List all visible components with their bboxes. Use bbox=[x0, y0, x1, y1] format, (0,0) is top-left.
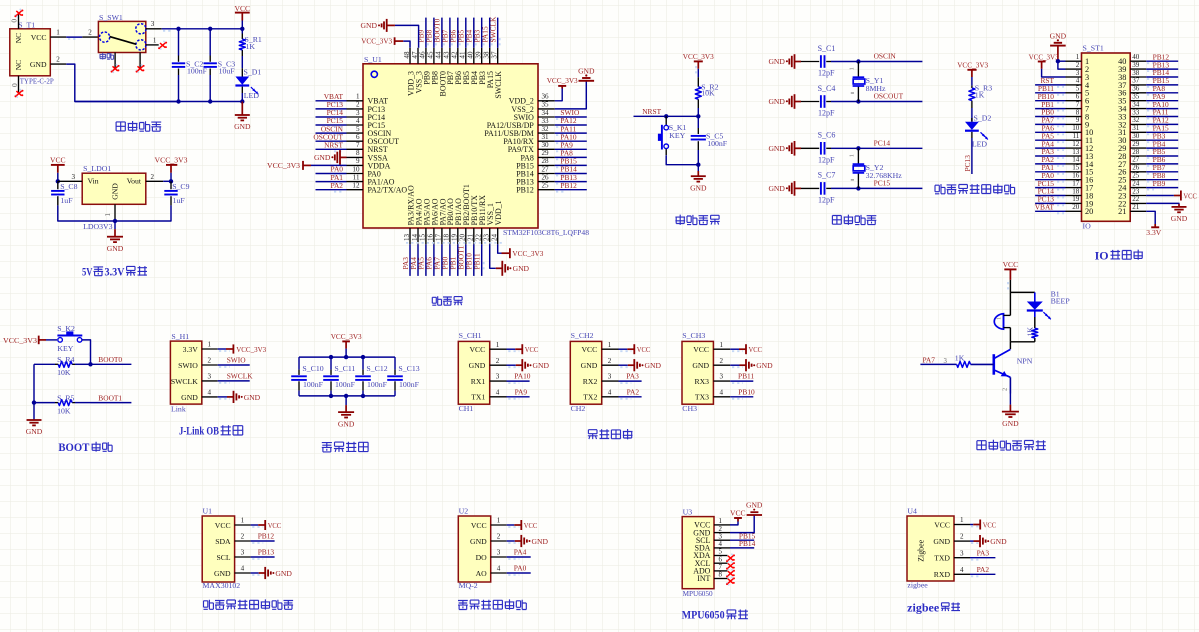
wire net RST at ST1 pin 4 bbox=[1035, 84, 1065, 86]
U4 pin 4 (RXD) pin line bbox=[954, 573, 970, 575]
wire net PA7 (alarm) bbox=[920, 363, 956, 365]
wire CH3 pin2 to GND bbox=[730, 364, 739, 366]
U3 pin 8 (INT) pin line bbox=[714, 578, 728, 580]
svg-text:36: 36 bbox=[542, 93, 550, 101]
svg-text:VCC_3V3: VCC_3V3 bbox=[547, 76, 578, 85]
wire to GND (reset) bbox=[697, 165, 699, 171]
svg-text:27: 27 bbox=[542, 165, 550, 173]
svg-text:12pF: 12pF bbox=[818, 196, 835, 205]
svg-text:4: 4 bbox=[496, 388, 500, 396]
svg-text:CH2: CH2 bbox=[571, 404, 586, 413]
svg-text:TXD: TXD bbox=[934, 554, 950, 563]
svg-text:20: 20 bbox=[1085, 207, 1093, 216]
resistor R4 bbox=[58, 361, 72, 367]
wire net PA9 (CH1) bbox=[507, 396, 530, 398]
ground GND (U2) bbox=[515, 540, 522, 542]
svg-text:23: 23 bbox=[1132, 187, 1140, 195]
ground GND (filter) bbox=[345, 405, 347, 412]
wire U2 pin1 to VCC bbox=[507, 524, 515, 526]
wire node to LED branch bbox=[1010, 291, 1034, 293]
title cheng-xu-yun-xing-zhi-shi-deng (run indicator) bbox=[935, 184, 945, 194]
switch SW1 pin 2 line bbox=[82, 36, 98, 38]
power port VCC_3V3 at U1 pin 36 bbox=[558, 85, 566, 87]
svg-text:1: 1 bbox=[207, 341, 211, 349]
U3 pin 3 (SCL) pin line bbox=[714, 539, 730, 541]
title chuan-kou-dian-lu (serial circuit) bbox=[588, 430, 598, 439]
svg-text:6: 6 bbox=[1076, 93, 1080, 101]
wire net BOOT0 at U1 pin 44 bbox=[441, 18, 443, 48]
svg-text:VCC: VCC bbox=[524, 521, 538, 530]
svg-text:6: 6 bbox=[356, 133, 360, 141]
wire net PA3 at U1 pin 13 bbox=[409, 244, 411, 276]
U1 pin 28 (PB15) pin line bbox=[538, 164, 555, 166]
svg-text:zigbee: zigbee bbox=[907, 581, 928, 590]
svg-text:1: 1 bbox=[719, 341, 723, 349]
crystal Y1 leads bbox=[857, 62, 859, 77]
svg-text:1: 1 bbox=[960, 516, 964, 524]
capacitor C9 bbox=[164, 190, 177, 192]
svg-text:VCC_3V3: VCC_3V3 bbox=[361, 37, 392, 46]
SW1 pin 1 line bbox=[146, 44, 159, 46]
ST1 pin 26 pin line bbox=[1130, 171, 1146, 173]
svg-text:VCC_3V3: VCC_3V3 bbox=[236, 345, 266, 354]
junction filter top stem bbox=[344, 355, 348, 359]
capacitor S_C11 bbox=[323, 375, 339, 377]
svg-text:VCC: VCC bbox=[525, 345, 539, 354]
no-connect X at SW1 pin 1 bbox=[158, 47, 161, 50]
svg-text:7: 7 bbox=[356, 141, 360, 149]
svg-text:5: 5 bbox=[719, 549, 723, 556]
wire VCC_3V3 to R3 bbox=[971, 77, 973, 86]
svg-text:8: 8 bbox=[1076, 108, 1080, 116]
wire net PA6 at ST1 pin 10 bbox=[1035, 131, 1065, 133]
svg-text:NC: NC bbox=[14, 33, 23, 44]
svg-text:100nF: 100nF bbox=[187, 67, 208, 76]
wire net PC13 at ST1 pin 19 bbox=[1035, 202, 1065, 204]
svg-text:VCC_3V3: VCC_3V3 bbox=[267, 161, 300, 170]
svg-text:BEEP: BEEP bbox=[1051, 296, 1071, 305]
svg-text:TX2: TX2 bbox=[583, 393, 597, 402]
svg-text:U4: U4 bbox=[907, 507, 917, 516]
U1 pin 40 (PB4) pin line bbox=[473, 48, 475, 64]
module U2 body bbox=[458, 516, 490, 582]
svg-text:7: 7 bbox=[1076, 100, 1080, 108]
capacitor C13 leads (filter S_C13) bbox=[394, 357, 396, 370]
U1 pin 42 (PB6) pin line bbox=[457, 48, 459, 64]
svg-text:PA2/TX/AO: PA2/TX/AO bbox=[368, 186, 408, 195]
resistor R4 leads bbox=[34, 363, 55, 365]
CH2 pin 2 (GND) pin line bbox=[602, 364, 619, 366]
junction at C3 bottom bbox=[208, 99, 212, 103]
U1 pin 21 (PB10/TX) pin line bbox=[473, 228, 475, 244]
svg-text:41: 41 bbox=[459, 51, 467, 59]
U1 pin 18 (PB0/AO) pin line bbox=[449, 228, 451, 244]
header ST1 body (IO expansion) bbox=[1082, 53, 1131, 221]
svg-text:GND: GND bbox=[275, 569, 292, 578]
power port 3.3V at ST1 pin 21 bbox=[1154, 224, 1156, 227]
wire net PA2 (CH2) bbox=[619, 396, 642, 398]
svg-text:15: 15 bbox=[1072, 164, 1080, 172]
key K1 contact circles bbox=[664, 125, 669, 130]
power port VCC (U3) bbox=[737, 518, 739, 522]
U1 pin 46 (PB9) pin line bbox=[425, 48, 427, 64]
svg-text:VCC_3V3: VCC_3V3 bbox=[957, 61, 988, 70]
power port VCC_3V3 at U1 pin 9 (VDDA) bbox=[311, 164, 347, 166]
wire U1 pin 47 to GND bbox=[395, 25, 419, 47]
svg-text:S_R5: S_R5 bbox=[57, 393, 74, 402]
svg-text:21: 21 bbox=[467, 233, 475, 241]
title xin-lv-xue-yang-jian-ce-mo-kuai (heart-rate module) bbox=[204, 600, 214, 610]
svg-text:100nF: 100nF bbox=[399, 380, 420, 389]
svg-text:PB12: PB12 bbox=[516, 186, 534, 195]
title jing-zhen-dian-lu (crystal circuit) bbox=[832, 216, 841, 225]
U1 pin 39 (PB3) pin line bbox=[481, 48, 483, 64]
svg-text:GND: GND bbox=[181, 393, 198, 402]
wire net PB12 at ST1 pin 40 bbox=[1146, 60, 1178, 62]
wire net PB14 (U3) bbox=[730, 547, 754, 549]
svg-text:10K: 10K bbox=[701, 89, 715, 98]
ST1 pin 22 pin line bbox=[1130, 202, 1146, 204]
bottom rail (filter) bbox=[299, 395, 395, 397]
svg-text:S_CH3: S_CH3 bbox=[682, 331, 705, 340]
svg-text:GND: GND bbox=[1171, 214, 1188, 223]
svg-text:GND: GND bbox=[469, 361, 486, 370]
connector T1 TYPE-C-2P body bbox=[10, 29, 51, 76]
LED B1 (BEEP) bbox=[1027, 302, 1043, 310]
ST1 pin 16 pin line bbox=[1066, 179, 1082, 181]
wire VCC_3V3 to R2 bbox=[697, 69, 699, 77]
svg-text:2: 2 bbox=[356, 101, 360, 109]
svg-text:MAX30102: MAX30102 bbox=[203, 581, 241, 590]
svg-text:INT: INT bbox=[697, 574, 710, 583]
crystal Y2 leads bbox=[857, 148, 859, 164]
power port VCC (CH1) bbox=[515, 348, 522, 350]
svg-text:100nF: 100nF bbox=[303, 380, 324, 389]
svg-text:PB14: PB14 bbox=[739, 539, 756, 548]
wire CH3 pin1 to VCC bbox=[730, 348, 739, 350]
wire left rail to GND (BOOT) bbox=[33, 364, 35, 419]
svg-text:40: 40 bbox=[467, 51, 475, 59]
U3 pin 2 (GND) pin line bbox=[714, 532, 730, 534]
power port VCC_3V3 at U1 pin 48 bbox=[403, 41, 410, 48]
U3 pin 4 (SDA) pin line bbox=[714, 547, 730, 549]
svg-text:22: 22 bbox=[475, 233, 483, 241]
wire net PA2 at ST1 pin 14 bbox=[1035, 163, 1065, 165]
title fu-wei-dian-lu (reset circuit) bbox=[675, 215, 685, 225]
ST1 pin 37 pin line bbox=[1130, 84, 1146, 86]
svg-text:GND: GND bbox=[756, 361, 773, 370]
svg-text:2: 2 bbox=[56, 56, 60, 64]
svg-text:38: 38 bbox=[483, 51, 491, 59]
svg-text:21: 21 bbox=[1118, 207, 1126, 216]
key K2 actuator bbox=[57, 335, 82, 337]
transistor Q1 NPN bbox=[992, 354, 995, 375]
svg-text:44: 44 bbox=[435, 51, 443, 59]
svg-text:GND: GND bbox=[645, 361, 662, 370]
wire VCC_3V3 to K2 bbox=[46, 339, 57, 341]
svg-text:2: 2 bbox=[960, 533, 964, 541]
T1 pin 1 (VCC) pin line bbox=[50, 36, 66, 38]
wire net PB11 at U1 pin 22 bbox=[481, 244, 483, 276]
svg-text:GND: GND bbox=[1050, 31, 1067, 40]
svg-text:3: 3 bbox=[1076, 69, 1080, 77]
ST1 pin 30 pin line bbox=[1130, 139, 1146, 141]
U1 pin 30 (PA9/TX) pin line bbox=[538, 148, 555, 150]
svg-text:IO: IO bbox=[1095, 250, 1109, 262]
svg-text:2: 2 bbox=[497, 533, 501, 541]
wire net PB0 at ST1 pin 8 bbox=[1035, 116, 1065, 118]
svg-text:25: 25 bbox=[1132, 172, 1140, 180]
svg-text:S_R4: S_R4 bbox=[57, 355, 74, 364]
svg-text:3: 3 bbox=[207, 373, 211, 381]
svg-text:1: 1 bbox=[608, 341, 612, 349]
resistor R3 bbox=[969, 88, 975, 101]
capacitor C6 bbox=[820, 142, 822, 155]
svg-text:1: 1 bbox=[356, 93, 360, 101]
svg-text:27: 27 bbox=[1132, 156, 1140, 164]
CH2 pin 4 (TX2) pin line bbox=[602, 396, 619, 398]
U4 pin 1 (VCC) pin line bbox=[954, 524, 970, 526]
svg-text:VCC: VCC bbox=[268, 521, 282, 530]
svg-text:LED: LED bbox=[972, 140, 988, 149]
wire net PC15 bbox=[858, 187, 922, 189]
svg-text:S_CH1: S_CH1 bbox=[459, 331, 482, 340]
wire net SWCLK at U1 pin 37 bbox=[497, 18, 499, 48]
svg-text:VCC: VCC bbox=[749, 345, 763, 354]
svg-text:43: 43 bbox=[443, 51, 451, 59]
svg-text:VCC: VCC bbox=[730, 508, 746, 517]
junction filter bottom stem bbox=[344, 394, 348, 398]
U2 pin 2 (GND) pin line bbox=[491, 540, 507, 542]
svg-text:S_SW1: S_SW1 bbox=[99, 13, 123, 22]
svg-text:SDA: SDA bbox=[215, 537, 231, 546]
svg-text:10: 10 bbox=[1072, 124, 1080, 132]
svg-text:SWIO: SWIO bbox=[227, 356, 247, 365]
wire net PB0 at U1 pin 18 bbox=[449, 244, 451, 276]
wire U1 pin1 to VCC bbox=[251, 524, 259, 526]
svg-text:28: 28 bbox=[1132, 148, 1140, 156]
svg-text:U1: U1 bbox=[203, 507, 213, 516]
svg-text:24: 24 bbox=[1132, 179, 1140, 187]
U1 pin 45 (PB8) pin line bbox=[433, 48, 435, 64]
junction R5 left bbox=[32, 400, 36, 404]
capacitor C7 bbox=[820, 182, 822, 195]
dashed grid marks under U1 bottom pins bbox=[406, 242, 502, 244]
wire net PB7 at ST1 pin 26 bbox=[1146, 171, 1178, 173]
wire net PB3 at U1 pin 39 bbox=[481, 18, 483, 48]
capacitor C8 leads bbox=[57, 181, 59, 189]
resistor R2 leads bbox=[697, 77, 699, 87]
U1 pin 19 (PB1/AO) pin line bbox=[457, 228, 459, 244]
ST1 pin 27 pin line bbox=[1130, 163, 1146, 165]
title yan-wu-jian-ce-mo-kuai (smoke module) bbox=[458, 601, 468, 610]
wire R3 to D2 bbox=[971, 108, 973, 122]
ST1 pin 12 pin line bbox=[1066, 147, 1082, 149]
U1 pin 15 (PA5/AO) pin line bbox=[425, 228, 427, 244]
key K1 actuator bbox=[661, 125, 663, 150]
wire net PA12 at U1 pin 33 bbox=[555, 124, 587, 126]
svg-text:GND: GND bbox=[513, 264, 530, 273]
svg-text:40: 40 bbox=[1132, 53, 1140, 61]
U1 pin 5 (OSCIN) pin line bbox=[347, 132, 364, 134]
svg-text:2: 2 bbox=[88, 29, 92, 37]
SW1 actuator bar bbox=[110, 37, 136, 45]
svg-text:S_D1: S_D1 bbox=[244, 67, 262, 76]
svg-text:4: 4 bbox=[1076, 77, 1080, 85]
ST1 pin 25 pin line bbox=[1130, 179, 1146, 181]
bottom rail buzzer/resistor bbox=[1010, 341, 1034, 343]
svg-text:20: 20 bbox=[459, 233, 467, 241]
svg-text:VCC_3V3: VCC_3V3 bbox=[512, 249, 543, 258]
svg-text:PB12: PB12 bbox=[258, 532, 275, 541]
capacitor C1 bbox=[820, 55, 822, 68]
svg-text:23: 23 bbox=[483, 233, 491, 241]
U1 pin 16 (PA6/AO) pin line bbox=[433, 228, 435, 244]
svg-text:S_C4: S_C4 bbox=[818, 84, 836, 93]
junction NRST/K1 bbox=[664, 114, 668, 118]
svg-text:GND: GND bbox=[361, 21, 378, 30]
svg-text:31: 31 bbox=[542, 133, 550, 141]
svg-text:11: 11 bbox=[353, 173, 360, 181]
svg-text:1K: 1K bbox=[1025, 327, 1034, 337]
svg-text:4: 4 bbox=[356, 117, 360, 125]
junction at C2 bottom bbox=[176, 99, 180, 103]
resistor R1 leads bbox=[241, 29, 243, 34]
capacitor C7 leads bbox=[801, 187, 819, 189]
svg-text:VCC: VCC bbox=[637, 345, 651, 354]
svg-text:19: 19 bbox=[1072, 195, 1080, 203]
ST1 pin 7 pin line bbox=[1066, 108, 1082, 110]
wire net PA2 at U1 pin 12 bbox=[316, 189, 347, 191]
CH3 pin 3 (RX3) pin line bbox=[713, 380, 730, 382]
svg-text:GND: GND bbox=[768, 144, 785, 153]
ST1 pin 33 pin line bbox=[1130, 116, 1146, 118]
switch SW1 body bbox=[98, 21, 145, 52]
svg-text:SWIO: SWIO bbox=[178, 361, 198, 370]
svg-text:VCC_3V3: VCC_3V3 bbox=[1029, 52, 1059, 61]
header CH2 body bbox=[570, 341, 601, 404]
wire net PB10 at U1 pin 21 bbox=[473, 244, 475, 276]
ST1 pin 34 pin line bbox=[1130, 108, 1146, 110]
svg-text:Vout: Vout bbox=[127, 177, 142, 186]
svg-text:28: 28 bbox=[542, 157, 550, 165]
svg-text:TX1: TX1 bbox=[471, 393, 485, 402]
svg-text:GND: GND bbox=[244, 393, 261, 402]
header CH1 body bbox=[458, 341, 489, 404]
svg-text:GND: GND bbox=[990, 537, 1007, 546]
wire U2 pin2 to GND bbox=[507, 540, 515, 542]
wire net SWCLK (J-Link) bbox=[218, 380, 250, 382]
junction crystal top PC14 bbox=[856, 146, 860, 150]
wire U4 pin1 to VCC bbox=[970, 524, 973, 526]
svg-text:35: 35 bbox=[1132, 93, 1140, 101]
svg-text:PA2: PA2 bbox=[627, 387, 640, 396]
ground GND at ST1 pins 1-2 bbox=[1057, 46, 1059, 62]
wire net BOOT1 bbox=[91, 402, 132, 404]
junction at LDO GND node bbox=[113, 219, 117, 223]
SW1 contact circle bottom-right bbox=[136, 40, 146, 50]
wire net OSCIN at U1 pin 5 bbox=[316, 132, 347, 134]
wire net SWIO (J-Link) bbox=[218, 364, 250, 366]
U4 pin 2 (GND) pin line bbox=[954, 540, 970, 542]
svg-text:PA3: PA3 bbox=[977, 548, 990, 557]
SW1 contact circle left bbox=[100, 32, 110, 42]
svg-text:36: 36 bbox=[1132, 85, 1140, 93]
svg-text:GND: GND bbox=[1002, 419, 1019, 428]
wire net PB5 at U1 pin 41 bbox=[465, 18, 467, 48]
svg-text:GND: GND bbox=[578, 67, 595, 76]
svg-text:GND: GND bbox=[692, 361, 709, 370]
ST1 pin 36 pin line bbox=[1130, 92, 1146, 94]
U1 pin 22 (PB11/RX) pin line bbox=[481, 228, 483, 244]
resistor R1 bbox=[239, 39, 245, 50]
svg-text:PC13: PC13 bbox=[963, 155, 972, 172]
svg-text:SWCLK: SWCLK bbox=[489, 16, 498, 43]
svg-text:4: 4 bbox=[207, 389, 211, 397]
LDO GND pin line bbox=[114, 204, 116, 221]
svg-text:TX3: TX3 bbox=[695, 393, 709, 402]
bottom rail of power circuit bbox=[75, 101, 243, 103]
svg-text:14: 14 bbox=[411, 233, 419, 241]
svg-text:VCC: VCC bbox=[234, 4, 250, 13]
svg-text:S_D2: S_D2 bbox=[974, 113, 992, 122]
svg-text:VDD_1: VDD_1 bbox=[494, 200, 503, 225]
wire GND to ST1 pin1/pin2 bbox=[1058, 60, 1066, 62]
U3 pin 6 (XCL) pin line bbox=[714, 562, 728, 564]
U1 pin 3 (PC14) pin line bbox=[347, 116, 364, 118]
U1 pin 13 (PA3/RX/AO) pin line bbox=[409, 228, 411, 244]
ST1 pin 39 pin line bbox=[1130, 68, 1146, 70]
svg-text:S_C7: S_C7 bbox=[818, 171, 836, 180]
svg-text:IO: IO bbox=[1083, 222, 1092, 231]
svg-text:8MHz: 8MHz bbox=[866, 84, 886, 93]
wire net NRST bbox=[634, 115, 699, 117]
wire net PA8 at U1 pin 29 bbox=[555, 156, 587, 158]
svg-text:VCC: VCC bbox=[469, 345, 485, 354]
SW1 bottom pin line a bbox=[114, 53, 116, 68]
svg-text:VCC_3V3: VCC_3V3 bbox=[331, 332, 362, 341]
svg-text:LED: LED bbox=[244, 91, 260, 100]
junction at VCC/R1 node bbox=[240, 27, 244, 31]
wire U4 pin2 to GND bbox=[970, 540, 974, 542]
svg-text:GND: GND bbox=[26, 427, 43, 436]
ST1 pin 4 pin line bbox=[1066, 84, 1082, 86]
svg-text:3.3V: 3.3V bbox=[105, 266, 126, 278]
T1 pin 2 (GND) pin line bbox=[50, 63, 66, 65]
wire H1 pin1 to VCC_3V3 bbox=[218, 348, 226, 350]
U1 pin 7 (NRST) pin line bbox=[347, 148, 364, 150]
ground GND (reset) bbox=[697, 171, 699, 176]
svg-text:PA10: PA10 bbox=[514, 372, 530, 381]
svg-text:VCC: VCC bbox=[1003, 260, 1019, 269]
crystal Y1 bbox=[853, 76, 865, 78]
svg-text:S_CH2: S_CH2 bbox=[571, 331, 594, 340]
wire net OSCOUT bbox=[858, 101, 922, 103]
svg-text:CH3: CH3 bbox=[682, 404, 697, 413]
junction BOOT0 node bbox=[88, 362, 92, 366]
no-connect X at SW1 bottom pin a bbox=[111, 70, 114, 73]
title zhu-xin-pian (main chip) bbox=[432, 296, 441, 305]
LED D2 leads bbox=[971, 118, 973, 122]
ground GND (CH1) bbox=[516, 364, 523, 366]
junction C5/K1/GND bbox=[696, 163, 700, 167]
SW1 pin 3 line bbox=[146, 28, 162, 30]
svg-text:6: 6 bbox=[719, 556, 723, 563]
ground GND (crystal cap C7) bbox=[795, 187, 802, 189]
svg-text:GND: GND bbox=[933, 537, 950, 546]
CH1 pin 4 (TX1) pin line bbox=[490, 396, 507, 398]
svg-text:22: 22 bbox=[1132, 195, 1140, 203]
